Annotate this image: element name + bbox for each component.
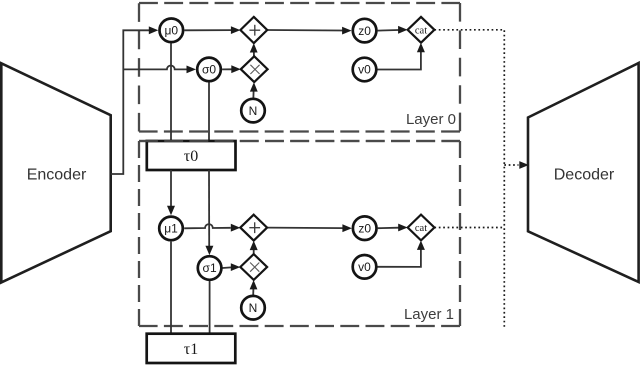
circle z0 layer0 xyxy=(353,19,377,43)
wire v0 to cat0 (right then up) xyxy=(378,52,421,70)
circle mu1 xyxy=(159,217,183,241)
dotted wire cat0 right and down xyxy=(434,30,504,327)
circle sigma1 xyxy=(198,256,222,280)
wire N1 up to times1 xyxy=(252,289,254,295)
wire N0 up to times0 xyxy=(252,91,254,98)
times diamond 0 xyxy=(241,56,268,82)
svg-text:τ0: τ0 xyxy=(184,148,198,165)
circle mu0 xyxy=(160,19,184,43)
svg-text:τ1: τ1 xyxy=(184,341,198,358)
layer 1 dashed box xyxy=(139,141,460,326)
wire z0 to cat0 xyxy=(378,29,399,32)
svg-text:σ1: σ1 xyxy=(203,261,217,275)
wire tau0 to sigma1 xyxy=(208,170,210,246)
circle v0 layer1 xyxy=(353,255,377,279)
wire v0 to cat1 (right then up) xyxy=(378,249,421,267)
wire sigma0 to times0 xyxy=(222,68,232,70)
layer 0 dashed box xyxy=(139,3,460,132)
dotted wire into decoder xyxy=(504,164,518,166)
circle z0 layer1 xyxy=(353,216,377,240)
tau0 box xyxy=(147,141,236,170)
circle N1 xyxy=(241,296,265,320)
cat diamond 1 xyxy=(408,215,435,241)
svg-text:N: N xyxy=(249,301,258,315)
wire sigma0 down to tau0 xyxy=(208,83,210,142)
wire sigma1 to times1 xyxy=(223,266,232,269)
cat diamond 0 xyxy=(408,17,435,43)
wire mu0 down to tau0 xyxy=(170,43,172,141)
wire times1 up to plus1 xyxy=(253,250,255,255)
svg-text:cat: cat xyxy=(415,223,427,234)
svg-text:μ1: μ1 xyxy=(164,222,178,236)
wire mu0 to plus0 xyxy=(185,29,232,31)
wire plus1 to z0 layer1 xyxy=(267,227,343,230)
svg-text:σ0: σ0 xyxy=(202,63,216,77)
wire mu1 down to tau1 xyxy=(170,242,172,334)
dotted wire cat1 right xyxy=(434,227,504,229)
tau1 box xyxy=(147,334,236,363)
decoder xyxy=(528,63,639,282)
wire sigma1 down to tau1 xyxy=(209,281,211,334)
wire mu1 to plus1 (with hop) xyxy=(184,224,231,228)
svg-text:v0: v0 xyxy=(358,260,371,274)
wire encoder branch to sigma0 (with hop) xyxy=(123,66,187,70)
svg-text:Layer 0: Layer 0 xyxy=(406,111,456,128)
wire plus0 to z0 xyxy=(267,29,343,32)
svg-text:Layer 1: Layer 1 xyxy=(404,306,454,323)
layer 1 top dashes over tau0 xyxy=(139,140,460,142)
times diamond 1 xyxy=(240,254,267,280)
svg-text:N: N xyxy=(249,104,258,118)
svg-text:Encoder: Encoder xyxy=(27,167,87,184)
svg-text:μ0: μ0 xyxy=(165,24,179,38)
circle N0 xyxy=(241,99,265,123)
plus diamond 0 xyxy=(240,17,267,43)
wire times0 up to plus0 xyxy=(253,52,255,57)
svg-text:z0: z0 xyxy=(358,221,371,235)
encoder xyxy=(1,63,110,282)
svg-text:v0: v0 xyxy=(358,63,371,77)
circle sigma0 xyxy=(197,58,221,82)
svg-text:cat: cat xyxy=(415,26,427,37)
circle v0 layer0 xyxy=(353,58,377,82)
wire z0 to cat1 xyxy=(378,227,399,230)
wire tau0 to mu1 xyxy=(170,170,172,207)
plus diamond 1 xyxy=(240,215,267,241)
svg-text:Decoder: Decoder xyxy=(554,167,615,184)
svg-text:z0: z0 xyxy=(358,24,371,38)
wire encoder to mu0 xyxy=(111,30,150,174)
